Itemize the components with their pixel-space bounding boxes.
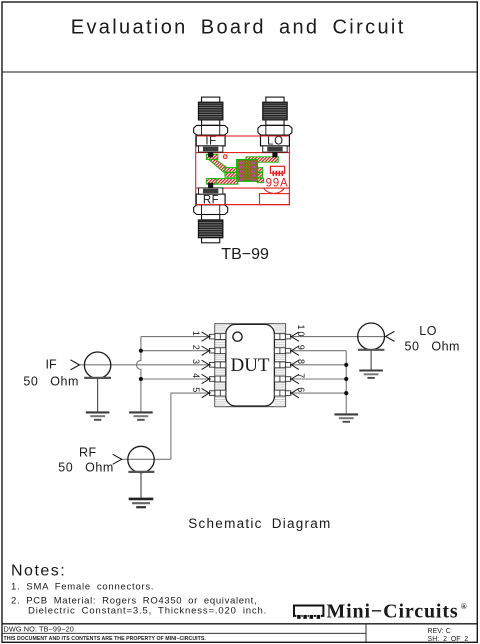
SMA connector LO: hex nut (258, 125, 292, 135)
svg-text:7: 7 (296, 373, 306, 380)
SMA connector IF: neck (202, 120, 220, 125)
wire IF to pin3 (79, 364, 209, 366)
junction dot pin6 (344, 391, 348, 395)
svg-text:99A: 99A (266, 178, 289, 190)
svg-text:Dielectric Constant=3.5, Thick: Dielectric Constant=3.5, Thickness=.020 … (28, 606, 267, 617)
port arrow LO (386, 331, 395, 341)
wire RF horizontal (122, 458, 171, 460)
arrow into pin 7 (290, 374, 299, 379)
svg-text:THIS DOCUMENT AND ITS CONTENTS: THIS DOCUMENT AND ITS CONTENTS ARE THE P… (4, 636, 207, 642)
trace mid row 2 (225, 173, 237, 178)
svg-text:8: 8 (296, 359, 306, 366)
junction dot pin2 (139, 349, 143, 353)
PCB top edge over connector boxes (196, 135, 290, 137)
LO source bottom bar (358, 349, 384, 351)
junction dot pin4 (139, 377, 143, 381)
PCB bottom-right inner box (260, 194, 290, 205)
svg-text:1: 1 (191, 331, 201, 338)
right bus (345, 351, 347, 414)
SMA connector RF: hex nut (194, 205, 228, 215)
svg-text:5: 5 (191, 387, 201, 394)
port arrow IF (71, 360, 80, 370)
left bus with hop over IF wire (136, 337, 140, 412)
svg-text:DWG NO: TB−99−20: DWG NO: TB−99−20 (4, 624, 74, 633)
svg-text:50 Ohm: 50 Ohm (405, 339, 460, 353)
trace mid row 1 (225, 168, 237, 173)
DUT pin 1 pad (215, 334, 226, 340)
arrow into pin 2 (202, 346, 211, 351)
svg-text:LO: LO (267, 136, 283, 148)
DUT pin 2 lead (209, 348, 214, 353)
arrow into pin 1 (202, 332, 211, 337)
Mini-Circuits logo package icon (294, 606, 323, 620)
arrow into pin 6 (290, 388, 299, 393)
DUT pin 10 pad (274, 334, 285, 340)
SMA connector LO: neck (266, 120, 284, 125)
trace stub right 1 (257, 168, 262, 173)
DUT pin 3 lead (209, 363, 214, 368)
DUT pin 4 lead (209, 377, 214, 382)
DUT pad ladder left (215, 324, 226, 406)
ground IF (86, 412, 110, 419)
LO source circle (358, 323, 385, 350)
svg-text:50 Ohm: 50 Ohm (23, 374, 78, 388)
SMA connector LO: body box (261, 135, 290, 146)
IF source bottom bar (84, 377, 111, 379)
arrow into pin 5 (202, 388, 211, 393)
ground LO (359, 371, 383, 378)
svg-text:DUT: DUT (230, 355, 269, 376)
svg-text:50 Ohm: 50 Ohm (58, 460, 113, 474)
svg-text:SH: 2 OF 2: SH: 2 OF 2 (428, 636, 469, 643)
trace stub right 3 (257, 178, 263, 183)
junction dot pin8 (344, 363, 348, 367)
svg-text:6: 6 (296, 387, 306, 394)
footer divider vertical (365, 624, 367, 643)
wire pin7 to bus (291, 378, 347, 380)
DUT pin 8 lead (285, 363, 290, 368)
svg-text:IF: IF (46, 357, 57, 371)
arrow into pin 10 (290, 332, 299, 337)
svg-text:Evaluation Board and Circuit: Evaluation Board and Circuit (71, 17, 406, 39)
svg-text:®: ® (461, 602, 467, 611)
DUT pin 10 lead (285, 334, 290, 339)
DUT pin 5 pad (215, 390, 226, 396)
ground right bus (334, 414, 358, 421)
SMA connector IF: hex nut (194, 125, 228, 135)
wire pin4 to bus (141, 378, 210, 380)
SMA connector LO: center pin (272, 152, 277, 157)
SMA connector LO: threaded barrel (263, 102, 287, 120)
trace LO top (246, 157, 278, 162)
DUT pad ladder right (274, 324, 285, 406)
DUT pin 2 pad (215, 348, 226, 354)
RF source circle (128, 446, 154, 472)
arrow into pin 8 (290, 360, 299, 365)
SMA connector IF: body box (196, 135, 225, 146)
PCB mounting arc (264, 188, 285, 193)
trace IF diagonal (209, 159, 231, 173)
DUT pin 9 pad (274, 348, 285, 354)
svg-text:10: 10 (296, 325, 306, 339)
SMA connector RF: center pin (208, 183, 213, 188)
PCB core bottom edge (196, 187, 290, 189)
DUT pin 8 pad (274, 362, 285, 368)
SMA connector RF: threaded barrel (198, 220, 222, 238)
SMA connector RF: end cap (202, 238, 220, 243)
PCB core top edge (196, 152, 290, 154)
DUT pin 6 pad (274, 390, 285, 396)
SMA connector RF: flange (198, 188, 222, 194)
chip die (hatched) (237, 160, 258, 182)
SMA connector RF: neck (202, 215, 220, 220)
SMA connector RF: body box (196, 194, 225, 205)
footer mid line (2, 632, 366, 634)
SMA connector IF: flange (198, 146, 222, 152)
svg-text:9: 9 (296, 345, 306, 352)
wire pin2 to bus (141, 350, 210, 352)
DUT pin 3 pad (215, 362, 226, 368)
chip vias (magenta dots) (240, 162, 255, 182)
DUT pin-1 marker circle (233, 332, 242, 341)
DUT pin 5 lead (209, 391, 214, 396)
trace RF bottom (210, 179, 238, 185)
SMA connector LO: end cap (266, 97, 284, 102)
wire pin1 to bus (141, 336, 210, 338)
svg-text:Schematic Diagram: Schematic Diagram (188, 516, 331, 531)
trace IF pad (206, 154, 218, 159)
DUT pin 9 lead (285, 348, 290, 353)
wire pin6 to bus (291, 392, 347, 394)
DUT package outline (215, 324, 286, 407)
arrow into pin 3 (202, 360, 211, 365)
SMA connector IF: end cap (202, 97, 220, 102)
svg-text:Mini−Circuits: Mini−Circuits (326, 600, 458, 622)
svg-text:1. SMA Female connectors.: 1. SMA Female connectors. (11, 582, 154, 593)
DUT pin 7 lead (285, 377, 290, 382)
DUT pin 4 pad (215, 376, 226, 382)
trace RF pad (206, 179, 216, 185)
LO ground stem (370, 350, 372, 370)
svg-text:RF: RF (79, 446, 97, 460)
SMA connector LO: flange (263, 146, 287, 152)
PCB board outline (196, 136, 290, 205)
wire pin8 to bus (291, 364, 347, 366)
arrow into pin 9 (290, 346, 299, 351)
svg-text:IF: IF (205, 136, 216, 148)
svg-text:3: 3 (191, 359, 201, 366)
DUT pin 7 pad (274, 376, 285, 382)
SMA connector IF: center pin (208, 152, 213, 157)
wire pin5 (171, 393, 210, 459)
svg-text:Notes:: Notes: (11, 563, 66, 580)
svg-text:4: 4 (191, 373, 201, 380)
svg-text:TB−99: TB−99 (221, 246, 269, 263)
junction dot pin7 (344, 377, 348, 381)
port arrow RF (113, 454, 122, 464)
wire pin9 to bus (291, 350, 347, 352)
wire pin10 to LO (291, 336, 386, 338)
RF source bottom bar (128, 471, 154, 473)
trace stub right 2 (257, 173, 262, 178)
RF ground stem (140, 472, 142, 498)
DUT pin 1 lead (209, 334, 214, 339)
arrow into pin 4 (202, 374, 211, 379)
DUT body (226, 324, 275, 406)
via (red circle) (223, 155, 227, 159)
IF source circle (84, 352, 110, 378)
IF ground stem (97, 378, 99, 412)
ground left bus (129, 412, 153, 419)
SMA connector IF: threaded barrel (198, 102, 222, 120)
component 99A footprint (270, 166, 284, 176)
footer top line (2, 623, 477, 625)
DUT pin 6 lead (285, 391, 290, 396)
svg-text:2: 2 (191, 345, 201, 352)
ground RF (129, 499, 154, 507)
svg-text:REV: C: REV: C (428, 628, 451, 635)
title separator line (2, 71, 477, 73)
svg-text:LO: LO (419, 324, 437, 338)
